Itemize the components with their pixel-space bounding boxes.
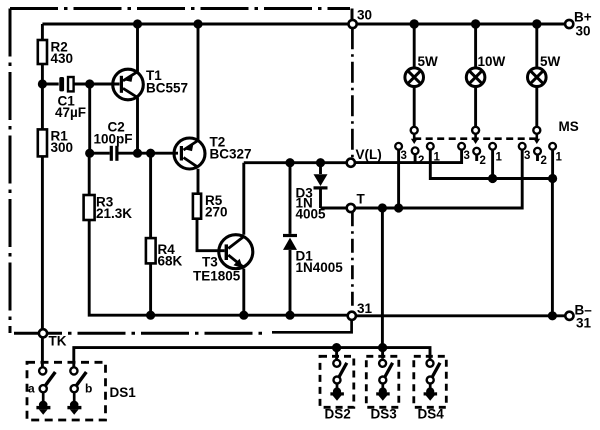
svg-text:31: 31 bbox=[576, 316, 592, 331]
svg-text:5W: 5W bbox=[540, 54, 561, 69]
svg-text:T: T bbox=[357, 192, 366, 207]
svg-text:TE1805: TE1805 bbox=[193, 269, 241, 284]
svg-text:DS4: DS4 bbox=[418, 407, 445, 422]
svg-text:T3: T3 bbox=[202, 255, 218, 270]
svg-text:2: 2 bbox=[418, 155, 424, 167]
svg-text:DS3: DS3 bbox=[371, 407, 398, 422]
svg-text:TK: TK bbox=[49, 334, 67, 349]
svg-text:30: 30 bbox=[576, 24, 591, 39]
svg-text:270: 270 bbox=[205, 205, 228, 220]
svg-text:BC327: BC327 bbox=[210, 147, 252, 162]
svg-text:BC557: BC557 bbox=[146, 81, 188, 96]
svg-text:430: 430 bbox=[51, 51, 74, 66]
svg-text:2: 2 bbox=[480, 155, 486, 167]
svg-text:5W: 5W bbox=[418, 54, 439, 69]
svg-text:100pF: 100pF bbox=[94, 132, 133, 147]
svg-text:B+: B+ bbox=[574, 10, 592, 25]
svg-text:68K: 68K bbox=[158, 254, 183, 269]
svg-text:DS1: DS1 bbox=[110, 385, 137, 400]
svg-text:1N4005: 1N4005 bbox=[296, 260, 344, 275]
svg-text:1: 1 bbox=[434, 152, 441, 164]
svg-text:4005: 4005 bbox=[296, 207, 327, 222]
svg-text:21.3K: 21.3K bbox=[96, 206, 132, 221]
svg-text:3: 3 bbox=[524, 150, 530, 162]
svg-text:b: b bbox=[85, 382, 92, 396]
svg-text:V(L): V(L) bbox=[356, 147, 382, 162]
svg-text:1: 1 bbox=[556, 152, 563, 164]
svg-text:2: 2 bbox=[541, 155, 547, 167]
svg-text:3: 3 bbox=[401, 150, 407, 162]
svg-text:1: 1 bbox=[496, 152, 503, 164]
svg-text:30: 30 bbox=[357, 8, 372, 23]
svg-text:10W: 10W bbox=[478, 54, 506, 69]
svg-text:47µF: 47µF bbox=[55, 105, 86, 120]
svg-text:MS: MS bbox=[559, 119, 579, 134]
svg-text:31: 31 bbox=[357, 301, 373, 316]
svg-text:300: 300 bbox=[51, 140, 74, 155]
svg-text:DS2: DS2 bbox=[325, 407, 351, 422]
svg-text:3: 3 bbox=[464, 150, 470, 162]
svg-text:a: a bbox=[28, 382, 35, 396]
